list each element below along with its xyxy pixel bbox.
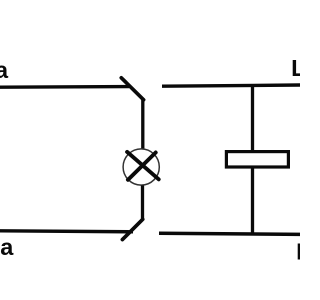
- coil K1 (rectangle component): [226, 152, 288, 167]
- lamp E1 circle: [123, 149, 159, 185]
- svg-text:a: a: [0, 57, 9, 83]
- lamp E1 cross stroke 1: [127, 152, 159, 179]
- svg-text:L: L: [291, 55, 300, 81]
- wire from lamp down to switch S2: [141, 186, 144, 221]
- svg-text:a: a: [0, 234, 14, 260]
- svg-text:N: N: [296, 239, 300, 265]
- wire from S1 down to lamp: [141, 98, 144, 150]
- lamp E1 cross stroke 2: [128, 153, 156, 180]
- wire right vertical branch: [251, 85, 254, 234]
- wire N bottom-left segment (node a return): [0, 231, 133, 232]
- switch S1 lever (top changeover switch): [121, 78, 143, 100]
- wire L top-right segment to lamp line L: [162, 85, 300, 86]
- wire L top-left segment (node a feed): [0, 85, 129, 89]
- wire N bottom-right segment: [159, 233, 300, 234]
- switch S2 lever (bottom changeover switch): [122, 219, 142, 239]
